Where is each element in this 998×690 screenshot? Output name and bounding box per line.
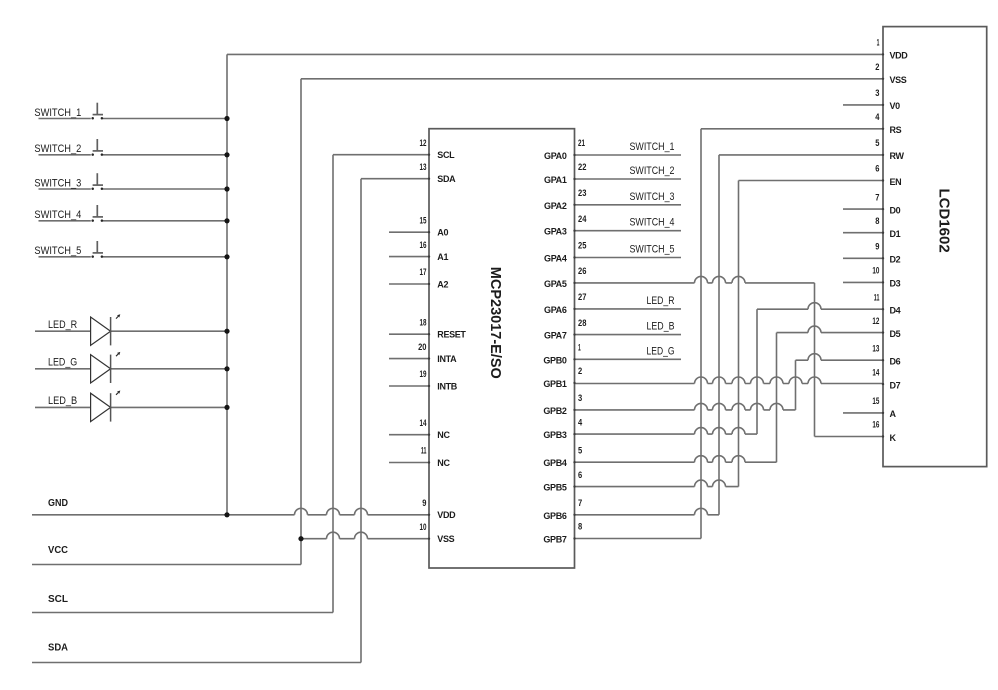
svg-text:RW: RW <box>890 151 905 161</box>
svg-text:GPB7: GPB7 <box>543 535 566 545</box>
wire U1 pin 1 net-label stub <box>575 358 682 360</box>
svg-text:4: 4 <box>875 112 879 122</box>
wire LCD RW pin 5 <box>719 154 883 156</box>
svg-text:17: 17 <box>420 267 427 277</box>
junction dot on bus <box>224 329 229 334</box>
svg-text:5: 5 <box>578 445 582 455</box>
svg-text:V0: V0 <box>890 101 901 111</box>
wire GPB2 to column D6 <box>575 403 796 410</box>
svg-text:5: 5 <box>875 138 879 148</box>
svg-text:SWITCH_3: SWITCH_3 <box>630 191 675 203</box>
pin stub LCD D3 <box>843 281 883 283</box>
wire SWITCH_2 right segment to bus <box>103 154 227 156</box>
LED D3 LED_B <box>91 391 121 422</box>
svg-text:GPA6: GPA6 <box>544 305 567 315</box>
svg-text:SCL: SCL <box>437 150 455 160</box>
svg-text:D4: D4 <box>890 306 901 316</box>
svg-text:12: 12 <box>420 138 427 148</box>
pin stub U1 INTA <box>389 358 429 360</box>
svg-text:VDD: VDD <box>437 510 456 520</box>
wire GPB6 to column RW <box>575 508 720 514</box>
svg-text:LED_G: LED_G <box>48 357 77 369</box>
wire GND to U1 VDD pin 9 <box>32 508 429 514</box>
svg-text:GPB0: GPB0 <box>543 355 566 365</box>
wire SWITCH_4 right segment to bus <box>103 220 227 222</box>
wire SDA riser vertical <box>360 179 362 663</box>
svg-text:6: 6 <box>875 164 879 174</box>
svg-text:SWITCH_1: SWITCH_1 <box>630 141 675 153</box>
svg-text:6: 6 <box>578 470 582 480</box>
wire LED_G anode segment <box>35 368 91 370</box>
svg-text:LED_R: LED_R <box>647 295 675 307</box>
wire U1 SCL pin 12 <box>333 154 429 156</box>
svg-text:16: 16 <box>872 420 879 430</box>
wire U1 SDA pin 13 <box>361 178 429 180</box>
svg-text:SWITCH_4: SWITCH_4 <box>34 209 81 221</box>
wire SWITCH_4 left segment <box>39 220 91 222</box>
svg-text:7: 7 <box>578 498 582 508</box>
svg-text:D7: D7 <box>890 380 901 390</box>
wire column D4 vertical <box>756 309 758 434</box>
svg-text:D5: D5 <box>890 329 901 339</box>
wire net VDD-LCD top rail <box>227 53 883 55</box>
svg-text:D3: D3 <box>890 279 901 289</box>
svg-text:RESET: RESET <box>437 330 466 340</box>
svg-text:13: 13 <box>872 343 879 353</box>
pin stub U1 A1 <box>389 256 429 258</box>
svg-text:GPA7: GPA7 <box>544 331 567 341</box>
wire LED_B anode segment <box>35 406 91 408</box>
svg-text:9: 9 <box>422 498 426 508</box>
svg-text:10: 10 <box>420 522 427 532</box>
svg-text:GPA3: GPA3 <box>544 227 567 237</box>
pin stub LCD D1 <box>843 232 883 234</box>
wire GPB3 to column D4 <box>575 428 758 434</box>
wire LED_R anode segment <box>35 330 91 332</box>
wire U1 pin 27 net-label stub <box>575 308 682 310</box>
svg-text:GPB1: GPB1 <box>543 379 566 389</box>
svg-text:A1: A1 <box>437 252 448 262</box>
svg-text:GPB5: GPB5 <box>543 483 566 493</box>
svg-text:GPA4: GPA4 <box>544 254 567 264</box>
svg-text:15: 15 <box>420 215 427 225</box>
wire column K vertical <box>814 283 816 437</box>
wire SWITCH_1 right segment to bus <box>103 118 227 120</box>
wire VCC horizontal <box>32 564 301 566</box>
svg-text:SWITCH_5: SWITCH_5 <box>630 244 675 256</box>
svg-text:GND: GND <box>48 498 68 509</box>
pin stub LCD D2 <box>843 257 883 259</box>
wire LCD D6 pin 13 <box>796 354 884 360</box>
svg-text:LED_R: LED_R <box>48 319 77 331</box>
svg-text:GPB6: GPB6 <box>543 511 566 521</box>
svg-text:23: 23 <box>578 188 586 198</box>
svg-text:1: 1 <box>877 38 880 48</box>
switch SW1 push-button <box>91 103 103 120</box>
pin stub LCD A <box>843 412 883 414</box>
svg-text:D2: D2 <box>890 255 901 265</box>
wire SCL riser vertical <box>332 155 334 613</box>
wire SWITCH_3 right segment to bus <box>103 188 227 190</box>
wire SWITCH_1 left segment <box>39 118 91 120</box>
junction dot on bus <box>224 186 229 191</box>
wire net VSS-LCD second rail <box>301 78 883 80</box>
svg-text:SWITCH_3: SWITCH_3 <box>34 177 81 189</box>
wire LED_B cathode segment to bus <box>111 406 227 408</box>
pin stub LCD D0 <box>843 208 883 210</box>
svg-text:3: 3 <box>578 393 582 403</box>
wire LCD D5 pin 12 <box>777 326 884 332</box>
junction dot on bus <box>224 366 229 371</box>
svg-text:14: 14 <box>872 367 879 377</box>
svg-text:9: 9 <box>875 242 879 252</box>
svg-text:13: 13 <box>420 162 427 172</box>
svg-text:15: 15 <box>872 396 879 406</box>
svg-text:LED_B: LED_B <box>647 321 675 333</box>
wire GPB4 to column D5 <box>575 456 777 463</box>
wire SWITCH_5 right segment to bus <box>103 256 227 258</box>
svg-text:7: 7 <box>875 192 879 202</box>
svg-text:24: 24 <box>578 214 586 224</box>
pin stub LCD V0 <box>843 104 883 106</box>
wire LCD EN pin 6 <box>739 180 884 182</box>
svg-text:2: 2 <box>578 366 582 376</box>
wire LED_G cathode segment to bus <box>111 368 227 370</box>
junction dot VCC riser / VSS row <box>298 536 303 541</box>
junction dot on bus <box>224 152 229 157</box>
svg-text:RS: RS <box>890 125 902 135</box>
pin stub U1 A2 <box>389 283 429 285</box>
svg-text:11: 11 <box>421 446 427 456</box>
wire VCC riser vertical <box>300 79 302 565</box>
wire left bus vertical <box>226 54 228 514</box>
wire LED_R cathode segment to bus <box>111 330 227 332</box>
pin stub U1 A0 <box>389 231 429 233</box>
svg-text:K: K <box>890 433 897 443</box>
switch SW2 push-button <box>91 139 103 156</box>
wire LCD RS pin 4 <box>701 128 883 130</box>
switch SW4 push-button <box>91 205 103 222</box>
wire SWITCH_2 left segment <box>39 154 91 156</box>
svg-text:LED_G: LED_G <box>647 345 675 357</box>
pin stub U1 NC pin 11 <box>389 462 429 464</box>
wire LCD K pin 16 <box>815 436 884 438</box>
wire column D6 vertical <box>795 360 797 410</box>
pin stub U1 INTB <box>389 385 429 387</box>
svg-text:8: 8 <box>875 216 879 226</box>
svg-text:VDD: VDD <box>890 51 909 61</box>
pin stub U1 NC pin 14 <box>389 434 429 436</box>
svg-text:SWITCH_4: SWITCH_4 <box>630 217 675 229</box>
svg-text:26: 26 <box>578 266 586 276</box>
wire GPB5 to column EN <box>575 480 739 486</box>
svg-text:D0: D0 <box>890 205 901 215</box>
IC U1 MCP23017-E/SO body <box>429 129 575 568</box>
wire U1 pin 25 net-label stub <box>575 257 682 259</box>
wire column D5 vertical <box>776 333 778 463</box>
wire VSS row to U1 VSS pin 10 <box>301 532 429 538</box>
wire column RS vertical <box>700 129 702 539</box>
svg-text:NC: NC <box>437 430 450 440</box>
svg-text:SCL: SCL <box>48 594 68 605</box>
wire U1 pin 24 net-label stub <box>575 230 682 232</box>
wire SCL horizontal <box>32 612 333 614</box>
wire GPA5 to column K <box>575 276 815 282</box>
svg-text:GPB2: GPB2 <box>543 406 566 416</box>
svg-text:27: 27 <box>578 292 586 302</box>
switch SW3 push-button <box>91 173 103 190</box>
wire U1 pin 23 net-label stub <box>575 204 682 206</box>
svg-text:3: 3 <box>875 88 879 98</box>
wire column RW vertical <box>718 155 720 515</box>
svg-text:VCC: VCC <box>48 545 68 556</box>
svg-text:GPB4: GPB4 <box>543 458 566 468</box>
svg-text:SWITCH_5: SWITCH_5 <box>34 245 81 257</box>
svg-text:16: 16 <box>420 240 427 250</box>
svg-text:SWITCH_1: SWITCH_1 <box>34 107 81 119</box>
svg-text:SDA: SDA <box>437 174 456 184</box>
svg-text:GPA0: GPA0 <box>544 151 567 161</box>
svg-text:A2: A2 <box>437 279 448 289</box>
svg-text:14: 14 <box>420 418 427 428</box>
svg-text:INTB: INTB <box>437 381 457 391</box>
svg-text:VSS: VSS <box>890 75 907 85</box>
svg-text:GPB3: GPB3 <box>543 430 566 440</box>
junction dot on bus <box>224 116 229 121</box>
pin connection points <box>428 53 884 540</box>
junction dot on bus <box>224 218 229 223</box>
svg-text:A: A <box>890 409 897 419</box>
junction dot on bus <box>224 405 229 410</box>
svg-text:SWITCH_2: SWITCH_2 <box>630 165 675 177</box>
svg-text:D6: D6 <box>890 357 901 367</box>
wire U1 pin 22 net-label stub <box>575 178 682 180</box>
wire U1 pin 21 net-label stub <box>575 154 682 156</box>
LED D1 LED_R <box>91 314 121 345</box>
svg-text:10: 10 <box>872 266 879 276</box>
junction dot bus-GND <box>224 512 229 517</box>
wire GPB7 to column RS <box>575 538 702 540</box>
wire GPB1 to LCD D7 <box>575 377 884 383</box>
junction dot on bus <box>224 254 229 259</box>
svg-text:SWITCH_2: SWITCH_2 <box>34 143 81 155</box>
svg-text:NC: NC <box>437 458 450 468</box>
svg-text:VSS: VSS <box>437 534 454 544</box>
svg-text:2: 2 <box>875 62 879 72</box>
svg-text:12: 12 <box>872 316 879 326</box>
LED D2 LED_G <box>91 352 121 383</box>
wire U1 pin 28 net-label stub <box>575 334 682 336</box>
IC U2 LCD1602 body <box>883 27 987 467</box>
svg-text:LED_B: LED_B <box>48 395 77 407</box>
svg-text:4: 4 <box>578 417 582 427</box>
wire LCD D4 pin 11 <box>757 303 883 310</box>
svg-text:20: 20 <box>418 342 426 352</box>
svg-text:EN: EN <box>890 177 902 187</box>
svg-text:INTA: INTA <box>437 354 457 364</box>
svg-text:11: 11 <box>874 292 880 302</box>
svg-text:GPA5: GPA5 <box>544 279 567 289</box>
wire column EN vertical <box>738 181 740 487</box>
svg-text:LCD1602: LCD1602 <box>935 188 952 252</box>
svg-text:A0: A0 <box>437 228 448 238</box>
svg-text:SDA: SDA <box>48 642 68 653</box>
pin stub U1 RESET <box>389 333 429 335</box>
svg-text:22: 22 <box>578 162 586 172</box>
svg-text:1: 1 <box>578 343 581 353</box>
svg-text:GPA2: GPA2 <box>544 201 567 211</box>
svg-text:28: 28 <box>578 318 586 328</box>
wire SWITCH_5 left segment <box>39 256 91 258</box>
switch SW5 push-button <box>91 241 103 258</box>
svg-text:D1: D1 <box>890 229 901 239</box>
svg-text:18: 18 <box>420 317 427 327</box>
svg-text:8: 8 <box>578 522 582 532</box>
wire SDA horizontal <box>32 662 361 664</box>
svg-text:GPA1: GPA1 <box>544 175 567 185</box>
svg-text:MCP23017-E/SO: MCP23017-E/SO <box>487 267 503 379</box>
svg-text:21: 21 <box>578 138 585 148</box>
svg-text:25: 25 <box>578 241 586 251</box>
svg-text:19: 19 <box>420 369 427 379</box>
wire SWITCH_3 left segment <box>39 188 91 190</box>
